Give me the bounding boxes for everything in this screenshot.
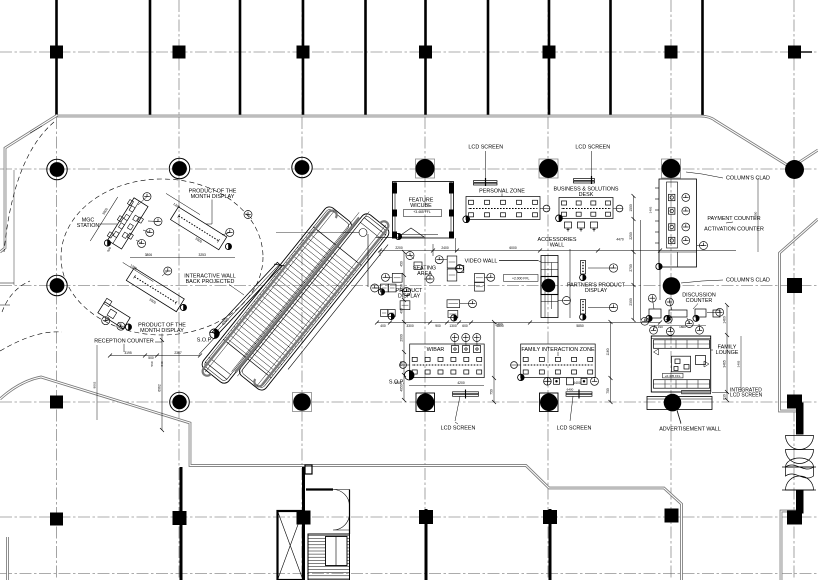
column A5 bbox=[50, 513, 63, 526]
dimension vert dim 162 bbox=[161, 340, 163, 430]
business solutions desk bbox=[559, 198, 623, 219]
svg-text:LCD SCREEN: LCD SCREEN bbox=[468, 145, 503, 151]
dimension vert dim 494 bbox=[493, 322, 495, 402]
svg-text:1300: 1300 bbox=[449, 324, 457, 328]
column A3 bbox=[47, 275, 67, 295]
svg-text:WALL: WALL bbox=[550, 243, 564, 249]
column E3 (in video wall) bbox=[542, 279, 556, 293]
seating table 3 bbox=[457, 266, 464, 273]
marker table b end bbox=[225, 243, 231, 249]
svg-text:3806: 3806 bbox=[145, 253, 153, 257]
balloon mgc 1 bbox=[143, 193, 151, 201]
seating table 7 bbox=[448, 311, 458, 318]
column F5 bbox=[665, 509, 679, 523]
balloon seating 8 bbox=[406, 252, 414, 260]
svg-text:1493: 1493 bbox=[649, 206, 653, 213]
column E4 bbox=[540, 393, 559, 412]
small arrow top left wall bbox=[30, 126, 42, 133]
svg-text:2350: 2350 bbox=[754, 211, 758, 218]
row 3 columns bbox=[47, 275, 802, 295]
LCD screen symbol top 1 bbox=[474, 151, 498, 186]
marker seating 3 bbox=[451, 315, 457, 321]
svg-text:2250: 2250 bbox=[629, 232, 633, 240]
svg-text:1500: 1500 bbox=[629, 204, 633, 212]
stair bottom core bbox=[308, 534, 350, 580]
FFL label video wall bbox=[504, 275, 539, 282]
column B2 bbox=[169, 158, 189, 178]
wall vertical at B bottom bbox=[180, 467, 183, 580]
balloon seating 3 bbox=[487, 273, 495, 281]
svg-text:S.O.P: S.O.P bbox=[197, 338, 212, 344]
line below payment counter bbox=[659, 267, 661, 300]
dashed curve left upper bbox=[4, 122, 54, 252]
balloon table c bbox=[164, 267, 172, 275]
svg-text:3195: 3195 bbox=[124, 351, 132, 355]
balloon fiz right bbox=[591, 377, 599, 385]
leader lcd bot 1 stem bbox=[455, 422, 458, 424]
marker payment corner bbox=[656, 263, 662, 269]
marker discussion 2 bbox=[664, 315, 670, 321]
balloon wibar 2 bbox=[462, 334, 470, 342]
seating table 5 bbox=[475, 283, 485, 292]
svg-text:2400: 2400 bbox=[495, 323, 503, 327]
svg-text:750: 750 bbox=[490, 389, 494, 395]
seating table 4 bbox=[475, 274, 485, 283]
display fixture a bbox=[392, 273, 402, 282]
svg-text:AREA: AREA bbox=[417, 271, 432, 277]
column G4 bbox=[787, 395, 802, 409]
balloon seating 2 bbox=[456, 265, 464, 273]
wall storefront lower boundary bbox=[0, 377, 682, 580]
marker partner 2 bbox=[580, 314, 586, 320]
balloon table d1 bbox=[102, 317, 110, 325]
leader columns clad 1 bbox=[686, 172, 723, 178]
svg-text:LCD SCREEN: LCD SCREEN bbox=[730, 393, 763, 399]
column G1 bbox=[788, 46, 801, 59]
display fixture f bbox=[388, 310, 395, 317]
balloon mgc 4 bbox=[138, 239, 146, 247]
column C1 bbox=[297, 46, 310, 59]
dimension vert dim 610 bbox=[610, 322, 612, 402]
LOWER TENANCY WALLS (black) bbox=[181, 467, 550, 580]
mgc station table bbox=[105, 196, 150, 250]
column C5 bbox=[297, 511, 311, 525]
svg-text:750: 750 bbox=[606, 388, 610, 394]
payment counter bbox=[655, 179, 697, 267]
svg-text:DESK: DESK bbox=[579, 192, 594, 198]
dimension chain top drop1 bbox=[379, 251, 381, 257]
dimension vert dim 633 bbox=[633, 196, 635, 320]
leader video wall leader bbox=[499, 260, 538, 262]
balloon discussion 6 bbox=[650, 326, 658, 334]
svg-text:+0.405 FFL: +0.405 FFL bbox=[665, 374, 681, 378]
wall vertical at C bottom bbox=[302, 467, 305, 580]
dimension chain top drop2 bbox=[432, 244, 434, 256]
svg-text:2700: 2700 bbox=[629, 264, 633, 272]
column B5 bbox=[173, 511, 187, 525]
column G3 bbox=[787, 278, 802, 293]
svg-text:VIDEO WALL: VIDEO WALL bbox=[465, 258, 498, 264]
seating table 2 bbox=[447, 269, 457, 281]
sop marker left bbox=[210, 329, 220, 339]
svg-text:1800: 1800 bbox=[679, 325, 686, 329]
balloon seating 5 bbox=[381, 273, 389, 281]
svg-text:LCD SCREEN: LCD SCREEN bbox=[441, 426, 476, 432]
display fixture g bbox=[414, 262, 422, 269]
display fixture d bbox=[400, 301, 410, 310]
leader fiz zone stem bbox=[557, 352, 559, 356]
partner product display bar 2 bbox=[581, 300, 586, 315]
display fixture e bbox=[381, 310, 388, 317]
grid line 2 horizontal bbox=[0, 168, 818, 170]
interactive wall back projected (angled wall) bbox=[209, 259, 285, 339]
column B4 bbox=[170, 392, 190, 412]
escalator handrail left bbox=[204, 212, 329, 368]
column E1 bbox=[543, 46, 556, 59]
display fixture b bbox=[381, 284, 389, 292]
dimension dim 3806 line bbox=[130, 257, 235, 259]
column D1 bbox=[419, 46, 432, 59]
column G5 bbox=[787, 511, 802, 525]
left edge dim marks bbox=[0, 282, 14, 284]
svg-text:400: 400 bbox=[400, 308, 404, 314]
column C2 bbox=[292, 157, 312, 177]
svg-text:DISPLAY: DISPLAY bbox=[398, 294, 421, 300]
LCD screen symbol bottom 2 bbox=[566, 390, 592, 422]
row 5 columns bbox=[50, 509, 802, 526]
svg-text:3253: 3253 bbox=[199, 253, 207, 257]
leader payment counter bbox=[726, 222, 733, 223]
svg-text:1,190: 1,190 bbox=[655, 325, 663, 329]
column A4 bbox=[50, 396, 63, 409]
column D4 bbox=[416, 393, 435, 412]
svg-text:1160: 1160 bbox=[606, 348, 610, 355]
video wall / accessories wall unit bbox=[541, 256, 558, 318]
payment stool 1 bbox=[682, 194, 690, 202]
fiz kids stools bbox=[544, 378, 587, 386]
dimension vert dim 727 bbox=[726, 305, 728, 400]
balloon discussion 7 bbox=[666, 328, 674, 336]
svg-text:WIBAR: WIBAR bbox=[427, 347, 445, 353]
wall right upper segment bbox=[780, 219, 818, 411]
marker partner 1 bbox=[580, 274, 586, 280]
leader mgc station bbox=[99, 223, 117, 225]
wall vertical at E bottom bbox=[549, 509, 552, 580]
wall right lower segment bbox=[781, 511, 796, 580]
escalator lane 2 outline bbox=[237, 211, 391, 392]
payment terminal 3 bbox=[669, 224, 675, 230]
svg-text:DISPLAY: DISPLAY bbox=[585, 288, 608, 294]
svg-text:3050: 3050 bbox=[400, 284, 404, 292]
leader columns clad 2 bbox=[681, 280, 723, 283]
payment terminal 4 bbox=[669, 237, 675, 243]
elevator shaft bbox=[278, 490, 350, 580]
dashed curve bottom-left corner bbox=[2, 281, 30, 312]
svg-text:STATION: STATION bbox=[77, 223, 100, 229]
grid line A vertical bbox=[56, 0, 58, 580]
leader interactive wall bbox=[229, 285, 244, 296]
dimension vert dim 97 bbox=[96, 345, 98, 420]
balloon table d2 bbox=[117, 322, 125, 330]
dimension vert dim 757 bbox=[757, 178, 759, 252]
marker table d end bbox=[125, 324, 131, 330]
balloon discussion 2 bbox=[666, 298, 674, 306]
leader personal zone stem bbox=[501, 194, 503, 197]
marker table a end bbox=[104, 240, 110, 246]
escalator lane 1 outline bbox=[200, 205, 354, 386]
dim line along table A bbox=[90, 197, 118, 241]
balloon discussion 8 bbox=[696, 326, 704, 334]
marker table c end bbox=[180, 304, 186, 310]
reception table inner bbox=[99, 298, 120, 318]
marker business desk bbox=[556, 215, 563, 222]
svg-text:8062: 8062 bbox=[93, 381, 97, 388]
svg-text:MONTH DISPLAY: MONTH DISPLAY bbox=[191, 194, 235, 200]
accessory stands below business desk bbox=[565, 222, 598, 232]
svg-text:1000: 1000 bbox=[394, 381, 402, 385]
leader family lounge bbox=[711, 349, 713, 351]
balloon partner 2 bbox=[609, 303, 617, 311]
revolving door entrance bbox=[782, 403, 816, 513]
marker seating 1 bbox=[378, 289, 384, 295]
mgc table inner shelves bbox=[109, 199, 146, 248]
svg-text:630: 630 bbox=[723, 394, 727, 400]
svg-text:LCD SCREEN: LCD SCREEN bbox=[575, 145, 610, 151]
balloon escalator bbox=[244, 211, 252, 219]
seating table 6 bbox=[447, 300, 460, 308]
svg-text:3465: 3465 bbox=[737, 360, 741, 367]
LCD screen symbol bottom 1 bbox=[453, 390, 479, 422]
dimension vert dim 14 bbox=[13, 170, 15, 285]
UPPER FACADE MULLION WALLS bbox=[57, 0, 703, 116]
svg-text:900: 900 bbox=[435, 324, 441, 328]
column E2 bbox=[539, 159, 558, 178]
column D5 bbox=[419, 510, 433, 524]
svg-text:MONTH DISPLAY: MONTH DISPLAY bbox=[140, 328, 184, 334]
balloon partner 1 bbox=[609, 264, 617, 272]
svg-text:2000: 2000 bbox=[400, 334, 404, 342]
svg-text:4470: 4470 bbox=[616, 238, 624, 242]
svg-text:+2.000 FFL: +2.000 FFL bbox=[512, 277, 530, 281]
svg-text:400: 400 bbox=[380, 324, 386, 328]
escalator balustrade inner lines bbox=[205, 194, 386, 403]
sop marker centre bbox=[404, 370, 414, 380]
grid line E vertical bbox=[547, 0, 549, 580]
svg-text:BACK PROJECTED: BACK PROJECTED bbox=[186, 279, 235, 285]
svg-text:6000: 6000 bbox=[509, 246, 517, 250]
dimension dim discussion bbox=[649, 325, 706, 327]
grid line G vertical bbox=[793, 0, 795, 580]
leader discussion bbox=[693, 304, 698, 310]
svg-text:750: 750 bbox=[400, 361, 404, 367]
column F3 bbox=[663, 277, 681, 295]
svg-text:5850: 5850 bbox=[576, 324, 584, 328]
marker fiz corner bbox=[518, 374, 525, 381]
LCD screen symbol top 2 bbox=[574, 151, 595, 184]
wall line behind partner display bbox=[569, 249, 571, 318]
svg-text:3300: 3300 bbox=[406, 324, 414, 328]
personal zone desk bbox=[466, 197, 550, 220]
dim line along table C left bbox=[123, 262, 154, 281]
wall bottom-left edge bbox=[6, 537, 9, 580]
svg-text:1460: 1460 bbox=[723, 316, 727, 324]
leader advertisement bbox=[677, 411, 681, 424]
balloon wibar 1 bbox=[451, 334, 459, 342]
grid line B vertical bbox=[178, 0, 180, 580]
leader reception bbox=[123, 344, 125, 352]
seating table 1 bbox=[447, 256, 457, 268]
svg-text:450: 450 bbox=[400, 261, 404, 267]
angled dimension line beside escalator bbox=[195, 278, 267, 355]
svg-text:ADVERTISEMENT WALL: ADVERTISEMENT WALL bbox=[659, 427, 721, 433]
wibar top stands bbox=[452, 346, 481, 353]
reception table bbox=[98, 302, 130, 329]
partner product display bar 1 bbox=[581, 261, 586, 275]
grid line 5 horizontal bbox=[0, 516, 818, 518]
column B1 bbox=[173, 46, 186, 59]
family interaction desk bbox=[511, 344, 596, 378]
feature wicube room bbox=[393, 182, 454, 239]
payment stool 2 bbox=[682, 207, 690, 215]
balloon discussion 9 bbox=[716, 308, 724, 316]
svg-text:2300: 2300 bbox=[629, 298, 633, 306]
column F4 bbox=[664, 394, 682, 412]
svg-text:6062: 6062 bbox=[158, 384, 162, 392]
balloon discussion 1 bbox=[648, 294, 656, 302]
balloon seating 4 bbox=[469, 300, 477, 308]
escalator handrail right bbox=[262, 229, 387, 385]
square columns row 1 bbox=[50, 46, 812, 59]
wall vertical at D bottom bbox=[425, 509, 428, 580]
dim line along table B top bbox=[166, 193, 200, 214]
svg-text:+3.465 FFL: +3.465 FFL bbox=[413, 210, 431, 214]
balloon seating 1 bbox=[435, 256, 443, 264]
grid line 6 horizontal bbox=[0, 573, 818, 575]
marker seating 4 bbox=[395, 233, 401, 239]
column F2 bbox=[662, 159, 681, 178]
marker discussion 1 bbox=[646, 315, 652, 321]
balloon mgc 2 bbox=[154, 217, 162, 225]
round columns row 2 bbox=[47, 157, 804, 179]
svg-text:2367: 2367 bbox=[174, 351, 182, 355]
dimension vert dim 404 bbox=[403, 252, 405, 400]
balloon seating 9 bbox=[426, 275, 434, 283]
dimension vert d roomline bbox=[455, 238, 457, 252]
discussion counter tables bbox=[649, 309, 720, 318]
svg-text:6400: 6400 bbox=[573, 381, 581, 385]
COLUMNS bbox=[47, 46, 812, 526]
svg-text:COUNTER: COUNTER bbox=[686, 298, 713, 304]
grid line D vertical bbox=[424, 0, 426, 580]
svg-text:560: 560 bbox=[150, 361, 154, 366]
grid line C vertical bbox=[301, 0, 303, 580]
floor opening edge line at escalator head bbox=[367, 234, 369, 287]
wibar desk bbox=[400, 344, 485, 378]
marker personal desk bbox=[463, 216, 470, 223]
balloon mgc 3 bbox=[146, 228, 154, 236]
door nib on wall C bbox=[305, 465, 312, 474]
leader product month top bbox=[206, 200, 212, 225]
balloon discussion 5 bbox=[685, 320, 693, 328]
dashed curve left lower bbox=[0, 332, 62, 351]
leader video wall text bbox=[499, 260, 538, 262]
marker discussion 3 bbox=[693, 315, 699, 321]
column G2 bbox=[785, 160, 804, 179]
column E5 bbox=[543, 510, 557, 524]
balloon discussion 4 bbox=[664, 315, 672, 323]
escalator treads bbox=[225, 233, 356, 375]
payment terminal 1 bbox=[669, 194, 675, 200]
grid line 3 horizontal bbox=[0, 285, 818, 287]
svg-text:COLUMN'S CLAD: COLUMN'S CLAD bbox=[726, 278, 770, 284]
svg-text:600: 600 bbox=[462, 324, 468, 328]
svg-text:WICUBE: WICUBE bbox=[410, 203, 432, 209]
svg-text:COLUMN'S CLAD: COLUMN'S CLAD bbox=[726, 176, 770, 182]
leader product month bot bbox=[155, 334, 162, 343]
family lounge room bbox=[651, 336, 710, 392]
balloon seating 7 bbox=[403, 288, 411, 296]
integrated lcd screen (grey) bbox=[682, 390, 711, 394]
row 4 columns bbox=[50, 392, 802, 412]
escalator landing split lines bbox=[223, 339, 271, 378]
grid line 1 horizontal bbox=[0, 51, 818, 53]
dashed ceiling ellipse bbox=[61, 179, 263, 335]
FURNITURE bbox=[0, 122, 816, 580]
balloon table b bbox=[226, 228, 234, 236]
svg-text:2200: 2200 bbox=[395, 246, 403, 250]
svg-text:LCD SCREEN: LCD SCREEN bbox=[557, 426, 592, 432]
dimension dim wibar bottom bbox=[409, 385, 484, 387]
grid line F vertical bbox=[670, 0, 672, 580]
column C4 bbox=[293, 393, 312, 412]
balloon wibar 3 bbox=[473, 334, 481, 342]
escalator handrail end hooks bbox=[201, 190, 390, 407]
ESCALATOR bbox=[195, 187, 398, 414]
svg-text:500: 500 bbox=[148, 356, 154, 360]
payment terminal 2 bbox=[669, 208, 675, 214]
dimension chain mid bbox=[377, 322, 660, 324]
dimension vert dim 640 bbox=[640, 220, 642, 320]
svg-text:6400: 6400 bbox=[567, 388, 574, 392]
svg-text:2400: 2400 bbox=[441, 246, 449, 250]
column A1 bbox=[50, 46, 63, 59]
payment stool 4 bbox=[682, 237, 690, 245]
dimension chain top bbox=[380, 250, 736, 252]
payment stool 3 bbox=[682, 223, 690, 231]
dimension dim reception bbox=[110, 355, 200, 357]
escalator handrail centre bbox=[235, 218, 359, 373]
marker seating 2 bbox=[388, 313, 394, 319]
product month table top bbox=[170, 207, 226, 250]
wall top horizontal bbox=[57, 116, 818, 168]
advertisement wall bbox=[647, 397, 712, 410]
column A2 bbox=[47, 159, 67, 179]
column F1 bbox=[665, 46, 678, 59]
balloon payment side bbox=[700, 242, 708, 250]
svg-text:RECEPTION COUNTER: RECEPTION COUNTER bbox=[94, 339, 154, 345]
balloon video wall mid bbox=[563, 297, 571, 305]
grid line 4 horizontal bbox=[0, 401, 818, 403]
svg-text:4050: 4050 bbox=[400, 384, 404, 392]
product month table mid bbox=[126, 268, 184, 312]
svg-text:3465: 3465 bbox=[723, 360, 727, 368]
balloon seating 6 bbox=[371, 284, 379, 292]
column D2 bbox=[416, 159, 435, 178]
balloon discussion 3 bbox=[641, 317, 649, 325]
display fixture c bbox=[388, 284, 396, 292]
dimension vert dim lounge bbox=[740, 336, 742, 392]
svg-text:4200: 4200 bbox=[457, 381, 465, 385]
